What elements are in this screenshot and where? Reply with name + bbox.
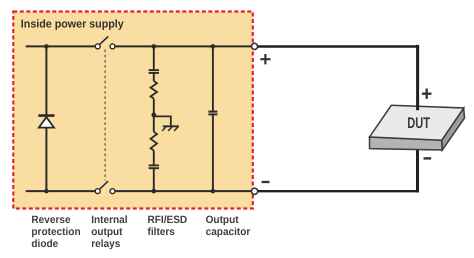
- caption: Output capacitor: [206, 214, 251, 238]
- output terminal + (white circle on boundary): [251, 43, 257, 49]
- junction dot bottom output cap: [211, 189, 216, 194]
- wire: DUT bottom lead (vertical, behind DUT): [416, 148, 419, 192]
- svg-text:capacitor: capacitor: [206, 226, 251, 238]
- node junction dot: [151, 113, 156, 118]
- svg-text:relays: relays: [91, 238, 120, 250]
- power-supply enclosure (tan area): [13, 12, 253, 209]
- dashed red boundary: [13, 12, 253, 209]
- relay contact bottom: switch arm: [100, 181, 108, 189]
- reverse protection diode (triangle): [39, 117, 54, 127]
- DUT right face: [442, 108, 465, 150]
- svg-text:Reverse: Reverse: [31, 214, 70, 226]
- relay contact bottom: right circle: [110, 189, 115, 194]
- wire: RFI/ESD branch top: [153, 46, 155, 70]
- junction dot top diode: [44, 44, 49, 49]
- output terminal - (white circle on boundary): [252, 188, 258, 194]
- wire: cap to resistor: [153, 73, 155, 81]
- label + at positive terminal: [260, 54, 270, 64]
- wire: DUT top lead (vertical, over DUT): [416, 45, 419, 110]
- DUT front face: [370, 137, 443, 150]
- capacitor C-filter bottom plate 2: [149, 167, 159, 169]
- wire: resistor to cap: [153, 151, 155, 166]
- relay contact bottom: left circle: [95, 189, 100, 194]
- chassis ground tick 3: [174, 126, 178, 131]
- svg-text:Internal: Internal: [91, 214, 127, 226]
- label - at DUT: [424, 157, 432, 159]
- wire: output capacitor branch bottom: [212, 115, 214, 191]
- junction dot top RFI: [152, 44, 157, 49]
- wire: reverse protection diode branch: [45, 46, 47, 191]
- reverse protection diode (cathode bar): [38, 114, 54, 117]
- junction dot bottom diode: [44, 189, 49, 194]
- wire: cap to bottom bus: [153, 169, 155, 192]
- resistor R-filter upper (zigzag): [151, 81, 157, 99]
- wire: node to chassis ground: [154, 116, 171, 126]
- wire: bottom bus left segment: [26, 190, 95, 192]
- caption: RFI/ESD filters: [148, 214, 188, 238]
- label - at negative terminal: [262, 181, 270, 183]
- junction dot top output cap: [211, 44, 216, 49]
- wire: external top lead: [258, 45, 419, 47]
- label + at DUT: [422, 89, 432, 99]
- relay contact top: right circle: [110, 44, 115, 49]
- wire: resistor to node: [153, 99, 155, 132]
- svg-text:filters: filters: [148, 226, 176, 238]
- svg-text:output: output: [91, 226, 123, 238]
- svg-text:DUT: DUT: [407, 115, 430, 132]
- relay mechanical link (dashed): [104, 50, 106, 181]
- svg-text:protection: protection: [31, 226, 80, 238]
- wire: output capacitor branch top: [212, 46, 214, 111]
- wire: top bus left segment: [26, 45, 95, 47]
- output capacitor plate 1: [208, 111, 217, 113]
- DUT top face: [370, 105, 464, 140]
- caption: Reverse protection diode: [31, 214, 80, 250]
- svg-text:diode: diode: [31, 238, 58, 250]
- svg-text:Output: Output: [206, 214, 239, 226]
- resistor R-filter lower (zigzag): [151, 132, 157, 151]
- wire: external bottom lead: [258, 190, 419, 192]
- chassis ground tick 1: [162, 126, 166, 131]
- capacitor C-filter top plate 1: [149, 69, 159, 71]
- wire: bottom bus right segment: [115, 190, 251, 192]
- wire: top bus right segment: [115, 45, 251, 47]
- junction dot bottom RFI: [152, 189, 157, 194]
- relay contact top: switch arm: [100, 36, 108, 44]
- caption: Internal output relays: [91, 214, 127, 250]
- capacitor C-filter bottom plate 1: [149, 164, 159, 166]
- svg-text:Inside power supply: Inside power supply: [21, 18, 125, 30]
- svg-text:RFI/ESD: RFI/ESD: [148, 214, 188, 226]
- chassis ground tick 2: [168, 126, 172, 131]
- relay contact top: left circle: [95, 44, 100, 49]
- chassis ground bar: [163, 125, 179, 127]
- capacitor C-filter top plate 2: [149, 72, 159, 74]
- output capacitor plate 2: [208, 113, 217, 115]
